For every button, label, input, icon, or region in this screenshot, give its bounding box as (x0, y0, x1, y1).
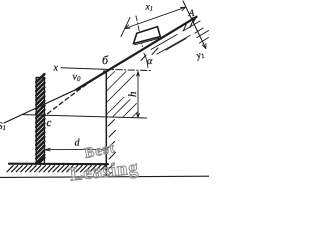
block on incline (134, 27, 161, 44)
d dimension line (45, 148, 108, 150)
node b junction blob (103, 70, 106, 73)
wire dashed trajectory parabola (45, 72, 106, 116)
svg-text:α: α (147, 56, 153, 67)
svg-text:h: h (127, 91, 139, 97)
svg-text:c: c (47, 117, 52, 129)
shading lines under incline (135, 20, 209, 61)
ground hatching (7, 166, 105, 172)
wire S1 line (incline extension) (4, 89, 78, 123)
h dimension line (137, 72, 139, 118)
svg-text:б: б (102, 53, 109, 67)
wire dash-dot horizontal through b (104, 69, 152, 70)
x1 left extension line (121, 18, 130, 37)
angle arc alpha (144, 53, 148, 67)
ground (9, 163, 108, 166)
column hatching sparse below (108, 120, 116, 177)
node c level line (23, 115, 147, 118)
wire bottom frame line (0, 176, 209, 177)
watermark (69, 140, 140, 185)
y1 axis line through A (183, 1, 206, 49)
svg-text:x: x (53, 63, 59, 74)
incline (roof) thick line (77, 17, 197, 90)
svg-text:A: A (188, 9, 195, 19)
incline tip arrowhead (192, 17, 197, 22)
x axis line (61, 68, 104, 69)
wall (left pole) (36, 74, 44, 163)
block centerline dash-dot (136, 16, 143, 47)
column hatching dense (107, 72, 138, 118)
column left edge (105, 73, 107, 177)
x1 dimension line (125, 7, 186, 28)
